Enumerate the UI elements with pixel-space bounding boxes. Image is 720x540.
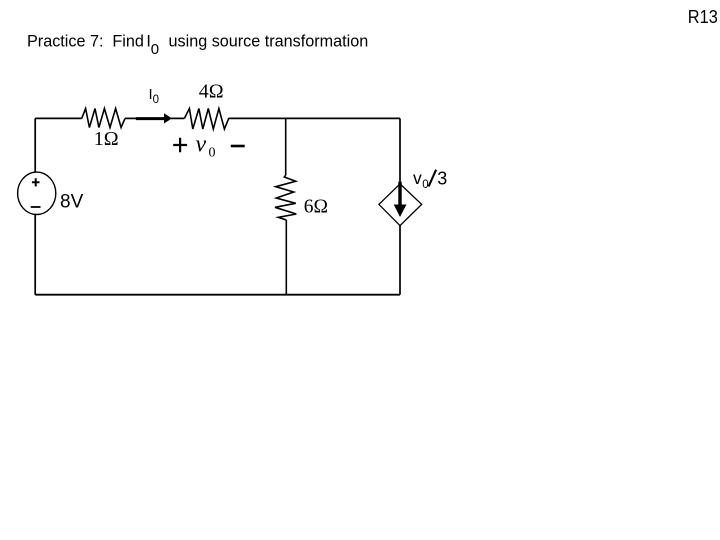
plus sign inside source (32, 178, 40, 186)
wire: bottom horizontal (35, 294, 400, 296)
resistor R 6ohm vertical zigzag (275, 175, 296, 220)
voltage source V1 8V ellipse (18, 172, 56, 214)
minus sign inside source (31, 206, 41, 208)
wire: left vertical from top corner down to source (34, 118, 36, 172)
dependent current source diamond (379, 184, 422, 226)
svg-text:v: v (196, 132, 207, 158)
svg-text:R13: R13 (688, 7, 718, 27)
resistor R 4ohm zigzag (184, 109, 229, 130)
wire: middle branch lower segment (285, 220, 287, 295)
wire: middle branch upper segment (285, 118, 287, 175)
wire: top segment from 4ohm to top-right corner (229, 117, 400, 119)
svg-text:Practice 7:FindI0using source: Practice 7:FindI0using source transforma… (27, 33, 368, 58)
svg-text:3: 3 (437, 169, 447, 189)
resistor R 1ohm zigzag (82, 109, 125, 128)
wire: stub between arrow and 4ohm (171, 117, 184, 119)
svg-text:8V: 8V (60, 192, 84, 213)
svg-text:I0: I0 (149, 86, 160, 106)
label + v0 - (voltage across 4ohm) (173, 138, 187, 152)
arrow inside dependent source (398, 182, 401, 207)
current arrow I0 (136, 117, 166, 120)
wire: right vertical upper segment (399, 118, 401, 184)
svg-text:v: v (413, 168, 422, 188)
svg-text:0: 0 (422, 179, 428, 191)
svg-text:4Ω: 4Ω (199, 81, 224, 103)
wire: left vertical below source to bottom corner (34, 215, 36, 295)
svg-text:1Ω: 1Ω (94, 128, 119, 150)
svg-text:0: 0 (209, 146, 216, 161)
wire: top-left horizontal segment (35, 117, 81, 119)
svg-text:6Ω: 6Ω (304, 196, 328, 217)
wire: right vertical lower segment (399, 226, 401, 295)
wire: stub between 1ohm and current arrow (125, 117, 137, 119)
